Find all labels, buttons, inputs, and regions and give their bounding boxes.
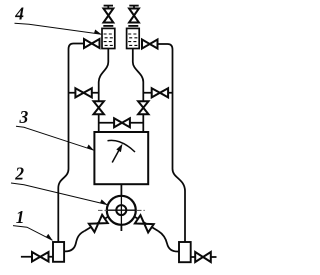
- svg-text:2: 2: [14, 164, 24, 184]
- svg-text:4: 4: [14, 3, 24, 23]
- svg-text:3: 3: [19, 107, 29, 127]
- svg-text:1: 1: [16, 207, 25, 227]
